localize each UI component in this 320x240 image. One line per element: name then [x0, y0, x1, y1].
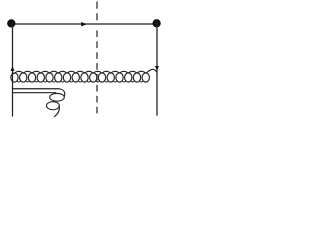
solenoid L1 top helix back-line (scalloped)	[13, 69, 157, 74]
wire right vertical	[156, 23, 158, 115]
secondary coil L2 turn 1	[50, 93, 65, 101]
wire lead lower of small coil	[13, 92, 56, 94]
wire top horizontal	[11, 23, 156, 25]
secondary coil L2 turn 2	[47, 102, 60, 110]
secondary coil L2 exit tail	[54, 106, 59, 117]
wire lead upper of small coil	[13, 88, 59, 90]
arrow down on right vertical	[155, 66, 159, 71]
node left (terminal dot)	[7, 19, 15, 27]
solenoid L1 bottom back-line segments	[17, 80, 143, 83]
node right (terminal dot)	[152, 19, 160, 27]
wire left vertical	[12, 23, 14, 116]
arrow up on left vertical	[10, 66, 14, 71]
dashed center line lower segment	[96, 31, 98, 113]
secondary coil L2 entry arc	[59, 89, 65, 97]
solenoid L1 front loops (16 turns)	[11, 73, 150, 82]
dashed center line upper segment	[96, 2, 98, 20]
arrow current direction top (pointing right)	[81, 22, 87, 26]
